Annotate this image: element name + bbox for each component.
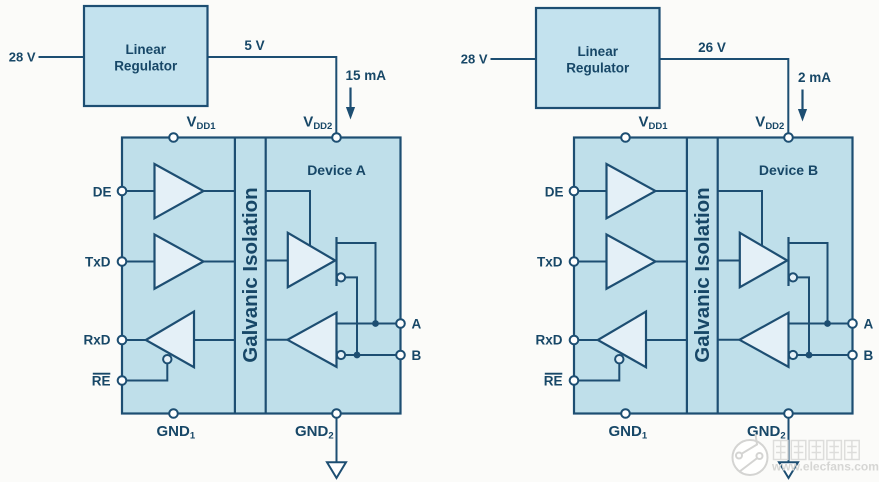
RE pin label (active low) <box>92 374 111 389</box>
svg-text:Regulator: Regulator <box>114 59 178 74</box>
watermark CJK characters <box>774 441 860 460</box>
svg-text:Galvanic Isolation: Galvanic Isolation <box>691 187 714 362</box>
wire driver Z output to node B <box>345 277 357 355</box>
driver inverting output bubble <box>789 273 797 281</box>
svg-text:28 V: 28 V <box>9 50 36 65</box>
wire TxD buffer to isolation <box>656 261 687 263</box>
TxD terminal pin (device B) <box>570 257 579 266</box>
RE terminal pin (device B) <box>570 376 579 385</box>
GND1 terminal pin (device B) <box>621 409 630 418</box>
junction node B <box>354 352 361 359</box>
watermark logo circle <box>733 434 768 475</box>
svg-text:GND2: GND2 <box>295 423 334 442</box>
ground symbol (GND2 device B) <box>779 462 798 478</box>
GND1 terminal pin (device A) <box>169 409 178 418</box>
svg-text:15 mA: 15 mA <box>346 68 387 83</box>
wire TxD across isolation to driver <box>718 260 740 262</box>
GND2 terminal pin (device B) <box>784 409 793 418</box>
DE input buffer <box>155 164 204 218</box>
terminal A pin (device B) <box>848 319 857 328</box>
terminal A pin (device A) <box>396 319 405 328</box>
terminal B pin (device A) <box>396 351 405 360</box>
RxD terminal pin (device B) <box>570 336 579 345</box>
TxD input buffer <box>607 235 656 289</box>
galvanic isolation barrier left line <box>234 138 236 414</box>
wire 28V input to regulator <box>491 58 537 60</box>
wire regulator output to VDD2 <box>208 57 337 137</box>
wire driver Z output to node B <box>797 277 809 355</box>
wire node A to terminal A <box>337 323 401 325</box>
svg-text:A: A <box>412 317 422 332</box>
wire 28V input to regulator <box>39 56 85 58</box>
svg-text:RE: RE <box>544 374 563 389</box>
VDD2 terminal pin (device A) <box>332 133 341 142</box>
linear regulator block (device A supply) <box>84 6 208 106</box>
VDD1 terminal pin (device A) <box>169 133 178 142</box>
bus receiver triangle <box>740 313 789 367</box>
wire DE across isolation to driver enable <box>718 191 762 246</box>
svg-text:Linear: Linear <box>125 42 166 57</box>
VDD1 terminal pin (device B) <box>621 133 630 142</box>
linear regulator block (device B supply) <box>536 8 660 108</box>
junction node A <box>372 320 379 327</box>
transceiver device A block outline <box>122 138 401 414</box>
VDD2 terminal pin (device B) <box>784 133 793 142</box>
wire RE to RxD buffer enable <box>574 363 619 380</box>
wire DE input <box>574 190 607 192</box>
wire DE buffer to isolation <box>204 190 235 192</box>
wire RxD output <box>122 339 146 341</box>
wire TxD buffer to isolation <box>204 261 235 263</box>
wire DE across isolation to driver enable <box>266 191 310 246</box>
svg-text:Galvanic Isolation: Galvanic Isolation <box>239 187 262 362</box>
wire regulator output to VDD2 <box>660 59 789 137</box>
wire TxD input <box>574 261 607 263</box>
current flow arrow 2 mA <box>798 90 807 122</box>
svg-text:Device A: Device A <box>307 162 366 178</box>
terminal B pin (device B) <box>848 351 857 360</box>
bus receiver triangle <box>288 313 337 367</box>
current flow arrow 15 mA <box>346 88 355 120</box>
wire RxD output <box>574 339 598 341</box>
TxD terminal pin (device A) <box>118 257 127 266</box>
wire GND2 to ground <box>336 418 338 463</box>
svg-text:DE: DE <box>93 185 112 200</box>
wire TxD input <box>122 261 155 263</box>
wire RE to RxD buffer enable <box>122 363 167 380</box>
RxD terminal pin (device A) <box>118 336 127 345</box>
wire RxD buffer to isolation <box>646 339 687 341</box>
RE enable bubble on RxD buffer <box>163 355 171 363</box>
DE input buffer <box>607 164 656 218</box>
svg-text:28 V: 28 V <box>461 52 488 67</box>
svg-text:TxD: TxD <box>537 254 563 269</box>
bus driver triangle <box>740 233 787 287</box>
DE terminal pin (device A) <box>118 187 127 196</box>
transceiver device B block outline <box>574 138 853 414</box>
svg-text:Regulator: Regulator <box>566 61 630 76</box>
wire receiver output to isolation <box>718 339 740 341</box>
wire driver Y output to node A <box>337 243 376 324</box>
svg-text:GND2: GND2 <box>747 423 786 442</box>
svg-text:B: B <box>412 348 422 363</box>
receiver inverting input bubble <box>789 351 797 359</box>
wire node B to terminal B <box>797 354 852 356</box>
wire RxD buffer to isolation <box>194 339 235 341</box>
RxD output buffer <box>598 312 646 368</box>
galvanic isolation barrier right line <box>265 138 267 414</box>
RxD output buffer <box>146 312 194 368</box>
svg-text:RxD: RxD <box>535 333 562 348</box>
galvanic isolation barrier right line <box>717 138 719 414</box>
svg-text:TxD: TxD <box>85 254 111 269</box>
GND2 terminal pin (device A) <box>332 409 341 418</box>
galvanic isolation barrier left line <box>686 138 688 414</box>
RE enable bubble on RxD buffer <box>615 355 623 363</box>
svg-text:B: B <box>864 348 874 363</box>
junction node B <box>806 352 813 359</box>
svg-text:A: A <box>864 317 874 332</box>
svg-text:Linear: Linear <box>577 44 618 59</box>
bus driver triangle <box>288 233 335 287</box>
wire receiver output to isolation <box>266 339 288 341</box>
driver inverting output bubble <box>337 273 345 281</box>
ground symbol (GND2 device A) <box>327 462 346 478</box>
driver differential output bar <box>335 237 337 286</box>
wire GND2 to ground <box>788 418 790 463</box>
TxD input buffer <box>155 235 204 289</box>
RE terminal pin (device A) <box>118 376 127 385</box>
svg-text:DE: DE <box>545 185 564 200</box>
wire driver Y output to node A <box>789 243 828 324</box>
wire DE buffer to isolation <box>656 190 687 192</box>
DE terminal pin (device B) <box>570 187 579 196</box>
svg-text:RE: RE <box>92 374 111 389</box>
wire TxD across isolation to driver <box>266 260 288 262</box>
RE pin label (active low) <box>544 374 563 389</box>
svg-text:26 V: 26 V <box>698 40 726 55</box>
svg-text:Device B: Device B <box>759 162 818 178</box>
driver differential output bar <box>787 237 789 286</box>
svg-text:RxD: RxD <box>83 333 110 348</box>
wire node B to terminal B <box>345 354 400 356</box>
receiver inverting input bubble <box>337 351 345 359</box>
wire DE input <box>122 190 155 192</box>
svg-text:5 V: 5 V <box>244 38 264 53</box>
svg-text:2 mA: 2 mA <box>798 70 831 85</box>
svg-text:www.elecfans.com: www.elecfans.com <box>771 460 879 474</box>
junction node A <box>824 320 831 327</box>
wire node A to terminal A <box>789 323 853 325</box>
